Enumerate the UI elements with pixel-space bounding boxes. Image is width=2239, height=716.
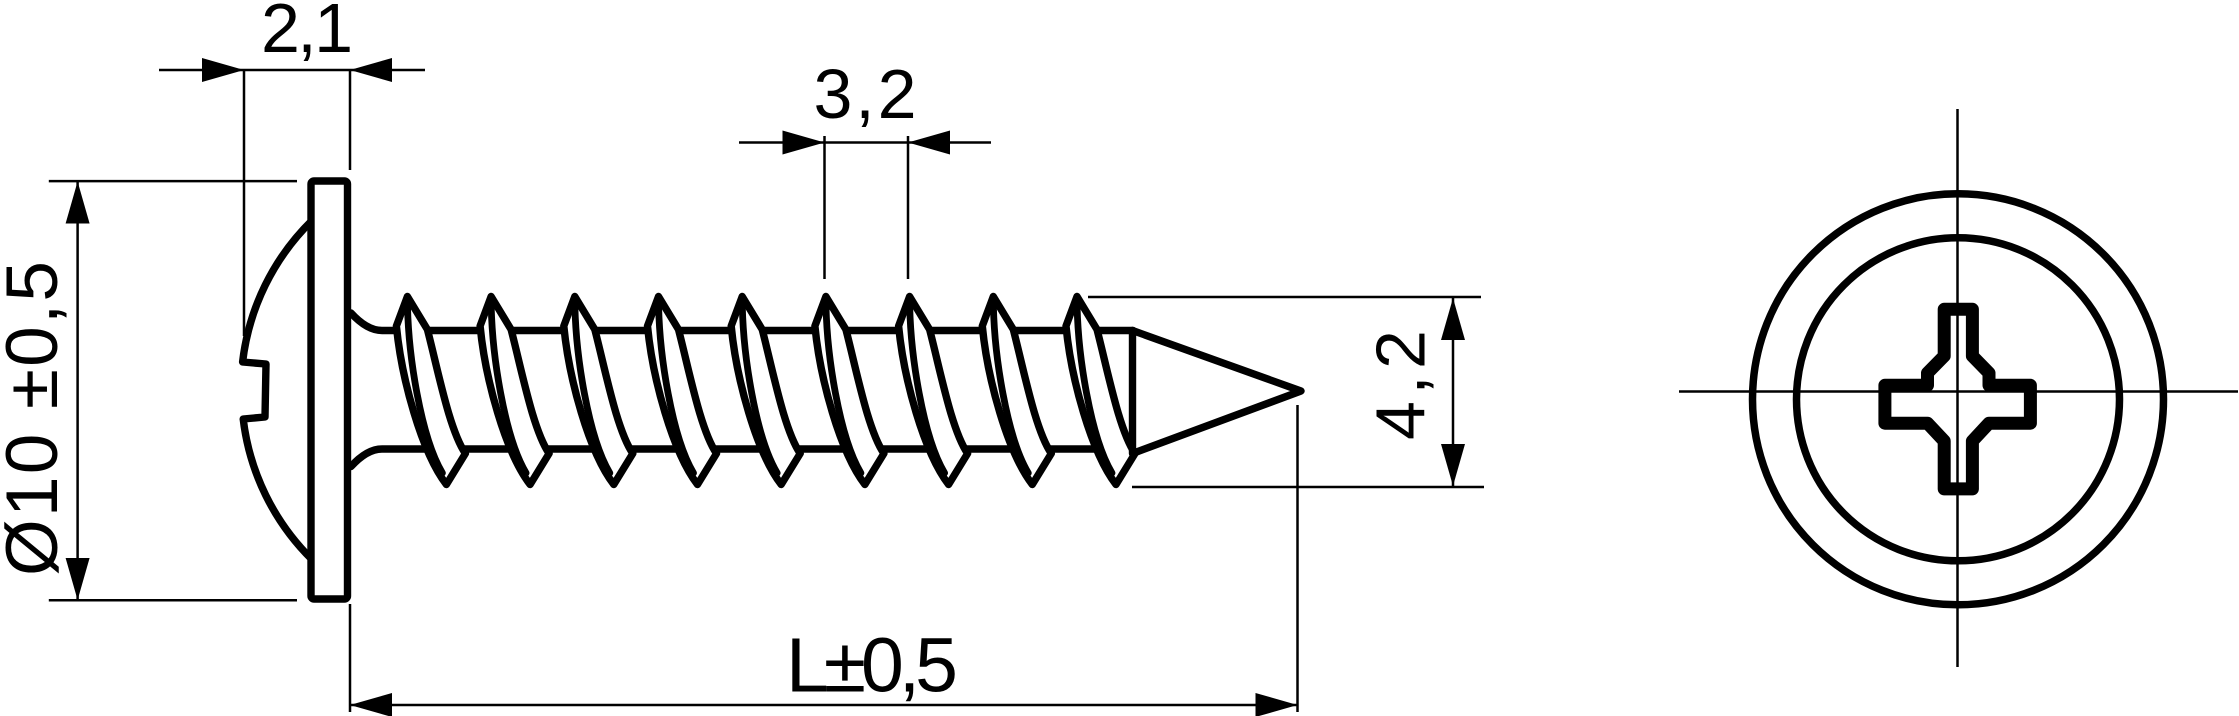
dimension 3,2 : right extension line (907, 136, 910, 279)
dimension L : dim line (350, 704, 1298, 707)
dimension L : left extension line (349, 604, 352, 712)
dimension 4,2 : bottom witness line (1132, 486, 1484, 489)
head front view : horizontal centerline (1679, 390, 2238, 393)
head front view : vertical centerline (1956, 109, 1959, 667)
dimension D10 : bottom arrow (66, 558, 90, 600)
head flange (washer) (311, 181, 348, 599)
thread turn 5 (731, 297, 800, 485)
screw head dome with recess notch (243, 221, 312, 560)
screw tip cone (1133, 331, 1302, 454)
dimension D10 : dim line (76, 182, 79, 600)
svg-text:3,2: 3,2 (814, 55, 917, 133)
dimension D10 : bottom witness line (49, 599, 297, 602)
dimension 2,1 : left extension line (243, 70, 246, 336)
dimension 2,1 : right extension line (349, 70, 352, 170)
head front view : inner circle (dome) (1797, 238, 2120, 561)
svg-text:4,2: 4,2 (1362, 330, 1440, 440)
head front view : phillips recess cross (1885, 309, 2031, 489)
thread turn 4 (648, 297, 717, 485)
thread turn 6 (815, 297, 884, 485)
dimension 2,1 : right arrow (350, 58, 392, 82)
dimension 4,2 : bottom arrow (1441, 444, 1465, 486)
dimension 2,1 : left arrow (202, 58, 244, 82)
shank core top line with fillet (351, 313, 1133, 331)
svg-text:Ø10 ±0,5: Ø10 ±0,5 (0, 261, 73, 576)
dimension 3,2 : right arrow (908, 131, 950, 155)
dimension 3,2 : left extension line (823, 136, 826, 279)
thread turn 7 (899, 297, 968, 485)
thread turn 2 (480, 297, 549, 485)
dimension L : left arrow (350, 693, 392, 716)
dimension D10 : top witness line (49, 180, 297, 183)
head front view : outer circle (flange) (1753, 194, 2164, 605)
svg-text:L±0,5: L±0,5 (786, 623, 958, 709)
dimension 4,2 : dim line (1452, 297, 1455, 487)
dimension 4,2 : top arrow (1441, 298, 1465, 340)
dimension L : right arrow (1256, 693, 1298, 716)
shank core bottom line with fillet (351, 449, 1133, 467)
thread turn 8 (982, 297, 1051, 485)
dimension 4,2 : top witness line (1088, 296, 1481, 299)
svg-text:2,1: 2,1 (261, 0, 353, 67)
thread turn 3 (564, 297, 633, 485)
dimension 2,1 : dim line (159, 69, 425, 72)
dimension D10 : top arrow (66, 182, 90, 224)
dimension 3,2 : left arrow (783, 131, 825, 155)
thread turn 1 (396, 297, 465, 485)
thread turn 9 (1066, 297, 1135, 485)
dimension 3,2 : dim line (739, 141, 991, 144)
dimension L : right extension line (1296, 405, 1299, 712)
